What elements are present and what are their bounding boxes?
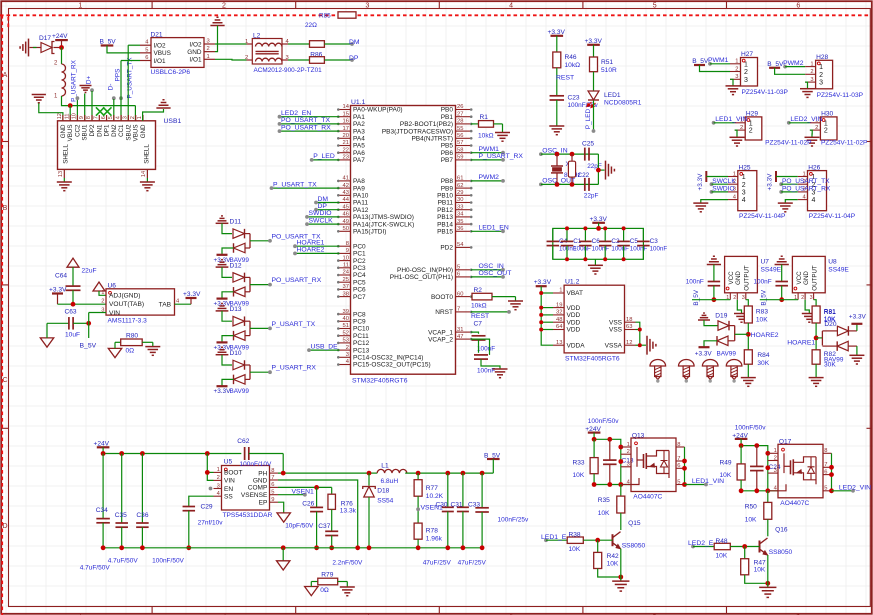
svg-text:R79: R79 (321, 571, 333, 578)
svg-text:PC8: PC8 (353, 311, 366, 318)
capacitor C13 (609, 439, 611, 460)
wire / net label P_LED (vertical) (593, 101, 595, 132)
pin 27 PB1 (456, 116, 471, 118)
svg-text:LED1_VIN: LED1_VIN (692, 478, 724, 485)
svg-text:VDD: VDD (567, 312, 581, 319)
hall sensor U8 SS49E (792, 256, 825, 292)
svg-text:40: 40 (343, 316, 349, 322)
svg-text:LED1_E: LED1_E (541, 534, 567, 541)
svg-text:VBUS: VBUS (133, 125, 140, 142)
svg-text:3: 3 (217, 483, 220, 489)
svg-text:2: 2 (130, 116, 136, 119)
pin 43 PA10 (340, 194, 351, 196)
svg-text:C62: C62 (237, 438, 249, 445)
wire / net label PWM1 (708, 62, 712, 66)
svg-text:GND: GND (253, 477, 268, 484)
junction (592, 437, 597, 442)
wire (556, 100, 558, 126)
capacitor C4 (552, 228, 554, 241)
svg-text:PB10: PB10 (437, 193, 453, 200)
capacitor C7 (VCAP_1) (471, 332, 479, 334)
svg-text:PA13(JTMS-SWDIO): PA13(JTMS-SWDIO) (353, 214, 414, 221)
pin 13 VDDA (553, 344, 564, 346)
pin 1 BOOT (214, 471, 222, 473)
junction (367, 471, 372, 476)
svg-text:NCD0805R1: NCD0805R1 (604, 100, 642, 107)
wire (814, 300, 817, 306)
ground flag (R79 left) (305, 587, 318, 596)
svg-text:63: 63 (626, 324, 632, 330)
svg-text:AO4407C: AO4407C (633, 494, 662, 501)
svg-text:DP1: DP1 (104, 124, 111, 137)
svg-text:R38: R38 (569, 532, 581, 539)
pin 40 PC9 (340, 320, 351, 322)
pin 14 PA0-WKUP(PA0) (340, 109, 351, 111)
pin 38 PC7 (340, 296, 351, 298)
svg-text:D20: D20 (824, 321, 836, 328)
svg-text:100nF: 100nF (611, 246, 629, 253)
svg-text:USBLC6-2P6: USBLC6-2P6 (151, 69, 191, 76)
svg-text:C25: C25 (582, 141, 594, 148)
svg-text:PZ254V-11-03P: PZ254V-11-03P (742, 89, 789, 96)
svg-text:10K: 10K (573, 472, 585, 479)
resistor R33 (593, 439, 595, 457)
wire (30, 47, 42, 49)
svg-text:OUTPUT: OUTPUT (744, 265, 751, 291)
svg-text:57: 57 (457, 140, 463, 146)
svg-text:19: 19 (556, 302, 562, 308)
svg-text:PC9: PC9 (353, 319, 366, 326)
svg-text:REST: REST (556, 74, 574, 81)
pin 42 PA9 (340, 187, 351, 189)
pin 15 PA1 (340, 116, 351, 118)
ground (U7 top) (707, 264, 721, 266)
svg-text:U5: U5 (224, 459, 233, 466)
svg-text:24: 24 (343, 270, 350, 276)
wire / net label SWCLK (710, 182, 714, 186)
ground (D20) (856, 346, 858, 355)
power flag +3.3V (D19) (699, 346, 710, 348)
wire (BOOT/VIN) (207, 454, 213, 481)
svg-text:2: 2 (735, 66, 738, 72)
power flag +3.3V (217, 254, 228, 256)
junction (HOARE2 node) (746, 332, 751, 337)
svg-text:2: 2 (749, 128, 753, 135)
svg-text:VDDA: VDDA (567, 342, 586, 349)
junction (281, 471, 286, 476)
node D+ (DP2) (90, 88, 94, 92)
svg-text:10K: 10K (745, 517, 757, 524)
svg-text:EN: EN (224, 486, 233, 493)
svg-text:B_5V: B_5V (761, 289, 768, 305)
capacitor C36 (141, 454, 143, 524)
connector H30 PZ254V-11-02P (820, 117, 837, 140)
svg-text:PZ254V-11-04P: PZ254V-11-04P (739, 213, 786, 220)
junction (754, 443, 759, 448)
pin 63 VSS (625, 329, 636, 331)
wire / net label P_USART_RX (250, 371, 270, 373)
svg-text:VBAT: VBAT (567, 290, 584, 297)
svg-text:PO_USART_TX: PO_USART_TX (281, 117, 330, 124)
svg-text:41: 41 (343, 176, 349, 182)
svg-text:Q15: Q15 (628, 520, 641, 527)
ground (R1) (502, 124, 504, 133)
svg-text:3: 3 (819, 80, 823, 87)
svg-text:R49: R49 (720, 460, 732, 467)
svg-text:CC1: CC1 (118, 124, 125, 137)
svg-text:VSEN1: VSEN1 (292, 489, 315, 496)
wire / net label PWM2 (471, 180, 503, 182)
capacitor C26 (316, 487, 318, 507)
pin 64 VDD (553, 329, 564, 331)
svg-text:R2: R2 (474, 287, 483, 294)
svg-text:GND: GND (60, 124, 67, 138)
svg-text:DM: DM (318, 196, 329, 203)
ground (D12 top) (216, 266, 229, 268)
svg-text:C7: C7 (474, 320, 483, 327)
ground (H27) (730, 79, 733, 86)
junction (68, 103, 73, 108)
wire (747, 323, 749, 350)
svg-text:L2: L2 (253, 33, 261, 40)
pin 19 VDD (553, 307, 564, 309)
wire (222, 355, 232, 365)
svg-text:C: C (2, 377, 7, 384)
svg-text:6: 6 (271, 482, 274, 488)
svg-text:56: 56 (457, 133, 463, 139)
svg-text:OSC_OUT: OSC_OUT (479, 270, 512, 277)
svg-text:HOARE1: HOARE1 (297, 240, 325, 247)
connector H26 PZ254V-11-04P (808, 171, 827, 211)
svg-text:PH0-OSC_IN(PH0): PH0-OSC_IN(PH0) (397, 267, 453, 274)
svg-text:NRST: NRST (435, 309, 453, 316)
svg-text:53: 53 (343, 338, 349, 344)
pin 20 PA4 (340, 137, 351, 139)
svg-text:D21: D21 (151, 32, 163, 39)
wire (COMP) (278, 486, 332, 488)
svg-text:DN2: DN2 (111, 124, 118, 137)
svg-text:52: 52 (343, 330, 349, 336)
capacitor C35 (121, 454, 123, 524)
svg-text:SWCLK: SWCLK (309, 217, 334, 224)
svg-text:VCAP_2: VCAP_2 (428, 336, 453, 343)
svg-text:10.2K: 10.2K (426, 493, 444, 500)
pin 22 PA6 (340, 152, 351, 154)
svg-text:P_USART_RX: P_USART_RX (272, 365, 317, 372)
wire (drain bus) (684, 447, 686, 485)
svg-text:21: 21 (343, 140, 349, 146)
svg-text:PC11: PC11 (353, 333, 369, 340)
wire / net label PWM2 (783, 65, 787, 69)
junction (445, 545, 450, 550)
pin 23 PA7 (340, 159, 351, 161)
svg-text:10uF: 10uF (65, 332, 80, 339)
svg-text:PO_USART_RX: PO_USART_RX (272, 277, 322, 284)
svg-text:35: 35 (457, 219, 463, 225)
svg-text:C37: C37 (318, 523, 330, 530)
svg-text:AMS1117-3.3: AMS1117-3.3 (108, 317, 148, 324)
pin 53 PC12 (340, 342, 351, 344)
svg-text:1: 1 (802, 171, 805, 177)
svg-text:14: 14 (343, 104, 350, 110)
svg-text:22: 22 (343, 147, 349, 153)
svg-text:10kΩ: 10kΩ (478, 133, 494, 140)
junction (119, 451, 124, 456)
svg-text:+3.3V: +3.3V (849, 314, 867, 321)
pin 26 PB0 (456, 109, 471, 111)
capacitor C37 (331, 509, 333, 531)
junction (739, 488, 744, 493)
ground (cap bank) (594, 259, 596, 265)
svg-text:PB11: PB11 (438, 200, 454, 207)
svg-text:PA8: PA8 (353, 178, 365, 185)
svg-text:6: 6 (677, 463, 680, 469)
ground (VCAP) (481, 359, 500, 369)
svg-text:45: 45 (343, 204, 349, 210)
svg-text:6.8uH: 6.8uH (381, 478, 399, 485)
svg-text:13: 13 (556, 340, 562, 346)
svg-text:A: A (3, 72, 8, 79)
no-connect dot (EN) (209, 487, 213, 491)
svg-text:25: 25 (343, 277, 349, 283)
crystal X1 8MHz (556, 154, 558, 166)
svg-text:32: 32 (556, 310, 562, 316)
svg-text:4: 4 (509, 2, 513, 9)
pin 48 VDD (553, 321, 564, 323)
regulator U6 AMS1117-3.3 (106, 289, 175, 315)
svg-text:1: 1 (744, 61, 748, 68)
svg-text:TAB: TAB (159, 301, 172, 308)
svg-text:5: 5 (653, 2, 657, 9)
wire (594, 484, 631, 486)
svg-text:31: 31 (457, 327, 463, 333)
wire / net label P_USART_RX (471, 159, 503, 161)
capacitor C8 (VCAP_2) (471, 338, 490, 341)
ground flag (bottom rail) (282, 548, 284, 561)
junction (829, 488, 834, 493)
svg-text:PB7: PB7 (441, 157, 454, 164)
svg-text:23: 23 (343, 155, 349, 161)
svg-text:C30: C30 (436, 501, 448, 508)
svg-text:U1.2: U1.2 (565, 279, 580, 286)
svg-text:D13: D13 (230, 306, 242, 313)
svg-text:PB9: PB9 (441, 185, 454, 192)
ground (U8 GND pin) (805, 300, 809, 314)
power flag +3.3V (D20) (856, 325, 858, 331)
svg-text:7: 7 (94, 116, 100, 119)
junction (829, 472, 834, 477)
svg-text:PA12: PA12 (353, 207, 369, 214)
svg-text:6: 6 (145, 55, 148, 61)
pin 47 VCAP_2 (456, 338, 471, 340)
resistor R82 (812, 350, 820, 364)
svg-text:VCAP_1: VCAP_1 (428, 329, 453, 336)
wire (405, 472, 493, 474)
svg-text:4: 4 (115, 116, 121, 119)
svg-text:PC4: PC4 (353, 272, 366, 279)
pin 10 PC2 (340, 260, 351, 262)
svg-text:C63: C63 (65, 309, 77, 316)
svg-text:2: 2 (207, 46, 210, 52)
junction (765, 465, 770, 470)
svg-text:TPS54531DDAR: TPS54531DDAR (223, 512, 273, 519)
svg-text:PB14: PB14 (437, 221, 453, 228)
svg-text:C5: C5 (630, 238, 639, 245)
pin 2 PC13 (340, 349, 351, 351)
svg-text:PB4(NJTRST): PB4(NJTRST) (411, 136, 453, 143)
svg-text:PC13: PC13 (353, 347, 370, 354)
capacitor C33 (481, 473, 483, 507)
svg-text:SWDIO: SWDIO (309, 210, 332, 217)
wire / net label DP (316, 209, 340, 211)
pin 59 PB7 (456, 159, 471, 161)
svg-text:PWM1: PWM1 (479, 146, 500, 153)
svg-text:R76: R76 (341, 501, 353, 508)
svg-text:1.96k: 1.96k (426, 535, 443, 542)
svg-text:1: 1 (742, 174, 746, 181)
junction (119, 545, 124, 550)
wire D21 GND up to ground (215, 30, 218, 52)
svg-text:B: B (3, 205, 8, 212)
svg-text:PZ254V-11-03P: PZ254V-11-03P (817, 92, 864, 99)
svg-text:C6: C6 (592, 238, 601, 245)
svg-text:PC5: PC5 (353, 279, 366, 286)
resistor R51 (590, 57, 598, 72)
mounting screw 2 (679, 360, 695, 366)
junction (638, 343, 642, 347)
svg-text:28: 28 (457, 119, 463, 125)
svg-text:VDD: VDD (567, 327, 581, 334)
svg-text:PD2: PD2 (440, 245, 453, 252)
svg-text:5: 5 (145, 47, 148, 53)
wire D21 pin3 to L2 (215, 43, 247, 45)
svg-text:10pF/50V: 10pF/50V (285, 523, 314, 530)
resistor R46 (553, 52, 561, 68)
svg-text:USB_DE: USB_DE (311, 343, 339, 350)
svg-text:10kΩ: 10kΩ (471, 303, 487, 310)
junction (607, 437, 612, 442)
pin 7 NRST (456, 311, 471, 313)
svg-text:60: 60 (457, 291, 463, 297)
svg-text:U1.1: U1.1 (351, 99, 366, 106)
power flag +3.3V (217, 341, 228, 343)
svg-text:6: 6 (824, 469, 827, 475)
wire / net label SWCLK (307, 223, 340, 225)
svg-text:R48: R48 (716, 538, 728, 545)
svg-text:15: 15 (343, 111, 349, 117)
svg-text:4.7uF/50V: 4.7uF/50V (80, 564, 111, 571)
svg-text:17: 17 (343, 126, 349, 132)
junction (461, 471, 466, 476)
ground (R2) (515, 297, 517, 301)
wire (594, 439, 621, 484)
svg-text:GND: GND (140, 124, 147, 138)
diode D18 SS54 (368, 473, 370, 486)
svg-text:R1: R1 (480, 114, 489, 121)
svg-text:0Ω: 0Ω (320, 587, 329, 594)
resistor R49 (740, 446, 742, 464)
svg-text:BOOT0: BOOT0 (431, 294, 453, 301)
resistor R86a (288, 43, 310, 45)
power flag +3.3V (217, 385, 228, 387)
svg-text:7: 7 (824, 462, 827, 468)
svg-text:2: 2 (627, 449, 630, 455)
svg-text:33: 33 (457, 204, 463, 210)
svg-text:2: 2 (824, 128, 828, 135)
svg-text:R42: R42 (607, 553, 619, 560)
svg-text:13.3k: 13.3k (340, 508, 357, 515)
svg-text:PB8: PB8 (441, 178, 454, 185)
no-connect X marks on DN1/DP1 (96, 107, 104, 115)
IC D21 USBLC6-2P6 (151, 38, 204, 68)
svg-text:10K: 10K (716, 552, 728, 559)
svg-text:2: 2 (801, 295, 804, 301)
pin 29 PB10 (456, 194, 471, 196)
svg-text:44: 44 (343, 197, 350, 203)
svg-text:R33: R33 (573, 459, 585, 466)
transistor Q16 SS8050 (767, 519, 769, 536)
wire (593, 72, 595, 91)
svg-text:6: 6 (457, 272, 460, 278)
svg-text:LED2_VIN: LED2_VIN (839, 485, 871, 492)
svg-text:PC10: PC10 (353, 326, 370, 333)
wire VBUS pins (69, 106, 71, 121)
svg-text:PA15(JTDI): PA15(JTDI) (353, 229, 386, 236)
capacitor C23 (550, 95, 565, 97)
wire CC2 (76, 99, 78, 121)
svg-text:C34: C34 (96, 507, 108, 514)
pin 58 PB6 (456, 152, 471, 154)
ground (R82) (809, 377, 824, 379)
pin 14 / ground (146, 169, 148, 178)
pin 61 PB8 (456, 180, 471, 182)
ground (D10 top) (216, 354, 229, 356)
svg-text:D-: D- (107, 84, 114, 91)
svg-text:30: 30 (457, 197, 463, 203)
wire (782, 299, 798, 301)
svg-text:26: 26 (457, 104, 463, 110)
resistor R2 (BOOT0 pulldown) (471, 296, 472, 298)
pin 54 PD2 (456, 246, 471, 248)
capacitor C3 (642, 228, 644, 241)
svg-text:H28: H28 (816, 54, 828, 61)
svg-text:PWM1: PWM1 (708, 57, 729, 64)
wire (PH node) (278, 472, 369, 474)
svg-text:1: 1 (749, 120, 753, 127)
svg-text:PO_USART_RX: PO_USART_RX (782, 186, 831, 193)
pin 62 PB9 (456, 187, 471, 189)
svg-text:10K: 10K (754, 567, 766, 574)
capacitor C31 (462, 473, 464, 507)
svg-text:COMP: COMP (248, 485, 268, 492)
svg-text:PA11: PA11 (353, 200, 368, 207)
wire / net label PWM1 (471, 152, 503, 154)
svg-text:LED2_EN: LED2_EN (281, 110, 311, 117)
ground flag (EP) (278, 502, 284, 513)
svg-text:ACM2012-900-2P-TZ01: ACM2012-900-2P-TZ01 (254, 67, 323, 74)
junction (618, 575, 623, 580)
pin 36 PB15 (456, 230, 471, 232)
svg-text:GND: GND (803, 271, 810, 285)
wire (emitter) (620, 549, 622, 581)
wire / net label PO_USART_TX (779, 182, 783, 186)
wire / net label LED1_E (544, 538, 548, 542)
svg-text:VSS: VSS (609, 327, 623, 334)
svg-text:13: 13 (58, 171, 64, 177)
capacitor C22 (584, 178, 586, 191)
svg-text:30K: 30K (824, 362, 836, 369)
svg-text:D19: D19 (715, 313, 727, 320)
